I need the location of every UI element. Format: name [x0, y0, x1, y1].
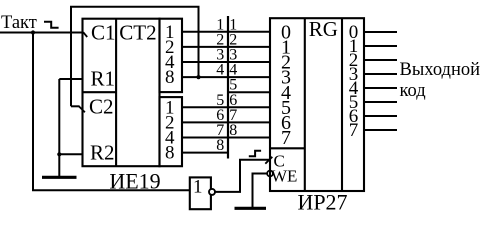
pin C1 dynamic tick: [83, 32, 87, 37]
wire Такт to C1: [0, 32, 83, 34]
wire output Q7 stub: [364, 129, 397, 131]
rising edge symbol at C input: [249, 151, 261, 156]
svg-text:8: 8: [216, 137, 224, 154]
pin C2 dynamic tick: [79, 106, 85, 112]
wire 6 right: [228, 106, 270, 108]
wire R1 to ground net: [59, 78, 82, 80]
register right field divider: [341, 18, 343, 191]
svg-text:7: 7: [349, 120, 359, 141]
svg-text:RG: RG: [309, 17, 338, 41]
wire output Q2 stub: [364, 59, 397, 61]
wire output Q6 stub: [364, 115, 397, 117]
svg-text:CT2: CT2: [119, 20, 156, 44]
register U2 ИР27 box: [270, 18, 364, 191]
falling edge symbol at Такт: [44, 22, 59, 28]
svg-text:8: 8: [229, 122, 237, 139]
wire 5 right: [228, 91, 270, 93]
svg-text:7: 7: [281, 127, 291, 149]
pin WE inversion bubble: [267, 171, 273, 177]
counter output box 1: [160, 19, 183, 92]
wire output Q4 stub: [364, 87, 397, 89]
svg-text:1: 1: [193, 176, 203, 197]
svg-text:ИЕ19: ИЕ19: [109, 168, 160, 193]
pin label WE: [271, 166, 297, 185]
wire 5 left: [182, 106, 228, 108]
inverter output bubble: [209, 189, 215, 195]
wire 7 left: [182, 137, 228, 139]
counter output box 2: [160, 97, 183, 166]
junction dot on Такт wire: [31, 30, 35, 34]
register part number ИР27: [297, 189, 347, 214]
pin label C: [274, 151, 285, 170]
pin C dynamic slash: [265, 157, 272, 164]
svg-text:R2: R2: [90, 141, 115, 165]
ground (under WE): [235, 207, 267, 210]
svg-text:код: код: [400, 81, 426, 101]
svg-text:C2: C2: [89, 95, 114, 119]
block label RG: [309, 17, 338, 41]
wire Такт drop to inverter: [33, 33, 190, 191]
counter part number ИЕ19: [109, 168, 160, 193]
wire 4: [182, 76, 270, 78]
wire output Q1 stub: [364, 45, 397, 47]
node R2 junction dot: [57, 152, 61, 156]
node feedback junction dot on wire 4: [196, 75, 200, 79]
wire inverter output to C of register: [215, 160, 270, 192]
svg-text:Выходной: Выходной: [400, 60, 481, 80]
wire 2: [182, 46, 270, 48]
svg-text:8: 8: [165, 143, 175, 164]
svg-text:C1: C1: [91, 20, 116, 44]
register left field divider: [304, 18, 306, 191]
wire 1: [182, 31, 270, 33]
wire 8 left: [182, 152, 228, 154]
node Такт label: [1, 13, 37, 33]
register input field section divider: [270, 147, 305, 149]
counter left field divider: [115, 19, 117, 167]
wire 7 right: [228, 121, 270, 123]
inverter D1 box: [190, 177, 211, 209]
svg-text:R1: R1: [91, 66, 116, 90]
wire 6 left: [182, 121, 228, 123]
svg-text:8: 8: [165, 67, 175, 88]
svg-text:Такт: Такт: [1, 13, 37, 33]
wire bundle vertical: [227, 16, 229, 159]
wire output Q3 stub: [364, 73, 397, 75]
wire output Q0 stub: [364, 31, 397, 33]
ground (under counter): [42, 176, 77, 179]
counter U1 ИЕ19 main box: [83, 19, 160, 167]
counter left field section divider: [83, 91, 117, 93]
svg-text:ИР27: ИР27: [297, 189, 347, 214]
svg-text:WE: WE: [271, 166, 297, 185]
wire feedback top (output 8 to C2): [71, 7, 199, 107]
wire R2: [59, 153, 82, 155]
svg-text:4: 4: [216, 62, 224, 79]
wire feedback into C2: [71, 105, 80, 107]
wire R1/R2 ground vertical: [58, 79, 60, 177]
wire 3: [182, 61, 270, 63]
inverter label 1: [193, 176, 203, 197]
wire WE to ground: [253, 174, 268, 208]
wire output Q5 stub: [364, 101, 397, 103]
wire 8 right: [228, 137, 270, 139]
